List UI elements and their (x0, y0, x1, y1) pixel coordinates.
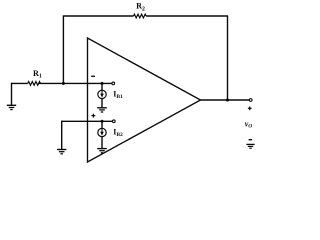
terminal inverting input (112, 82, 115, 85)
ground left of R1 (7, 105, 16, 109)
op-amp U1 (88, 38, 201, 162)
wire feedback left vertical (62, 15, 64, 83)
wire bottom left down (61, 121, 63, 150)
current source IB1 (98, 83, 106, 107)
node IB2 tap (100, 120, 103, 123)
wire top feedback horizontal (63, 15, 227, 17)
label R1 (33, 69, 42, 80)
minus sign output polarity (249, 139, 253, 140)
wire left input down (11, 83, 13, 106)
plus sign noninverting input (92, 114, 96, 118)
node feedback to inverting input (62, 82, 65, 85)
ground bottom left (57, 150, 66, 154)
terminal output (249, 99, 252, 102)
ground under IB1 (97, 108, 107, 112)
current source IB2 (98, 121, 106, 148)
resistor R1 (28, 82, 41, 86)
label vO (245, 119, 253, 129)
label IB1 (113, 89, 123, 100)
label IB2 (113, 128, 123, 139)
plus sign output polarity (248, 107, 252, 111)
node output feedback junction (226, 98, 229, 101)
wire inverting input horizontal (12, 82, 113, 84)
resistor R2 (134, 14, 147, 18)
wire output horizontal (201, 99, 250, 101)
wire feedback right vertical (227, 15, 229, 100)
node IB1 tap (100, 82, 103, 85)
terminal noninverting input (112, 120, 115, 123)
ground output reference (246, 144, 254, 148)
minus sign inverting input (91, 76, 95, 77)
label R2 (136, 2, 145, 13)
ground under IB2 (97, 149, 107, 153)
wire noninverting input horizontal (62, 120, 113, 122)
